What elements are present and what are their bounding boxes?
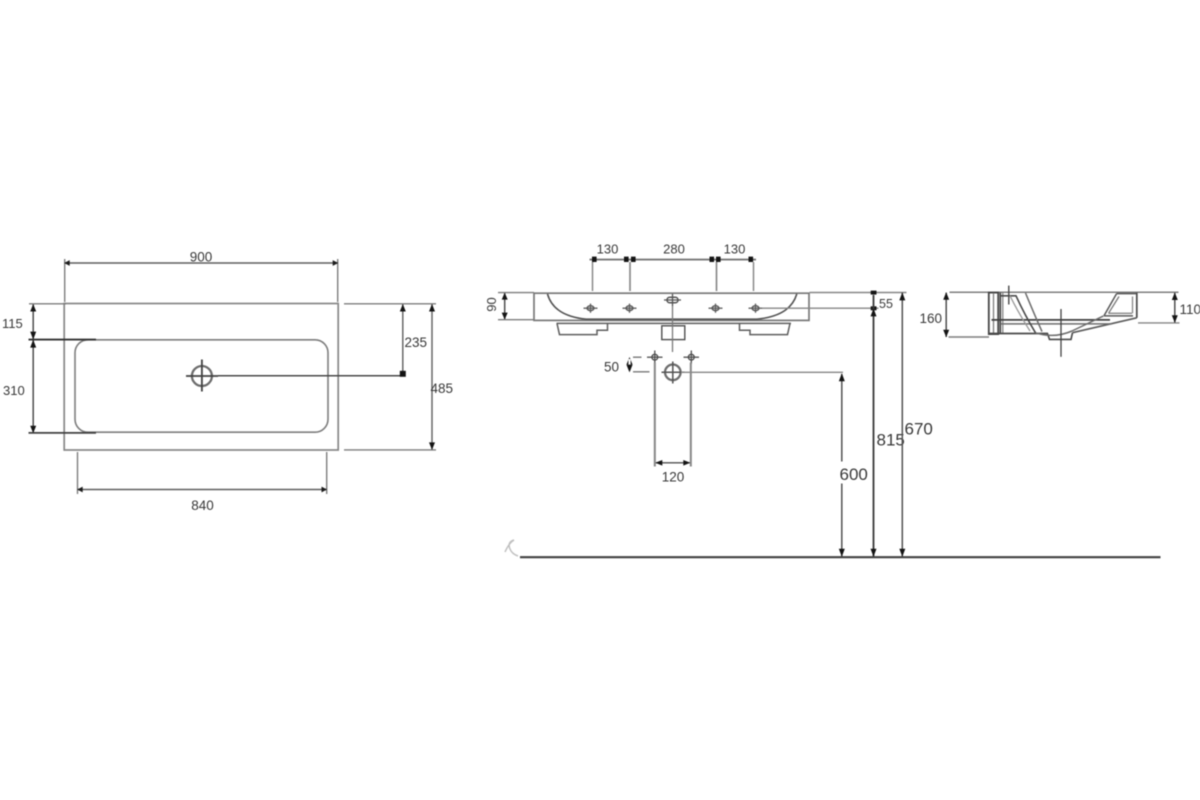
dim 815 top arrow [871,308,877,316]
body left edge [999,293,1001,334]
dim 115/310 middle double arrow [30,332,36,348]
dim 115 top arrow [30,304,36,312]
dim 55 tick top [871,291,877,295]
dim 110 top arrow [1172,293,1178,301]
overflow left diagonal [1104,294,1117,316]
dim 670 top arrow [899,292,905,300]
body right edge [1136,293,1138,318]
svg-text:815: 815 [877,431,905,450]
svg-text:50: 50 [604,360,619,375]
tap hole oval 3 [709,304,723,313]
duct vertical left [654,363,656,467]
rim bottom line across body [992,319,1111,321]
svg-text:670: 670 [905,420,933,439]
dim 110 bottom arrow [1172,315,1178,323]
overflow top edge [1117,293,1137,295]
drain leader line to 235 dimension [218,375,404,377]
drain symbol circle [192,366,212,386]
dim 600 bottom arrow [839,549,845,557]
dim 840 ext line left [77,452,79,494]
ext vertical hole2 [629,262,631,291]
dim 815 bottom arrow [871,549,877,557]
dim 485 bottom arrow [429,442,435,450]
dim 840 arrow right [322,487,328,493]
overflow inner right edge [1132,297,1134,314]
drain centreline [1060,309,1062,357]
body left edge double line [1002,293,1004,333]
svg-text:115: 115 [2,316,23,331]
dim 160 line [945,293,947,337]
tap hole oval 1 [584,304,598,313]
dim 310 bottom arrow [30,426,36,434]
tick 4 [749,257,754,262]
overflow inner bottom line [1109,312,1133,314]
ext vertical hole3 [716,262,718,291]
tick 2b [631,257,636,262]
svg-text:110: 110 [1180,302,1200,317]
ext vertical hole1 [592,262,594,291]
svg-text:90: 90 [484,297,499,311]
tick 3b [716,257,721,262]
duct vertical right [690,363,692,467]
ext line at inner-rect bottom (dark) [29,432,97,434]
left wall bracket [557,323,608,334]
svg-text:55: 55 [879,297,893,311]
inner shelf line [1001,323,1113,325]
dim 160 bottom ext line [949,336,990,338]
dim 900 arrow left [64,260,70,266]
centreline through faucet/drain [672,306,674,352]
ext vertical hole4 [753,262,755,291]
faucet centreline [1008,286,1010,305]
dim 90 ext bottom [498,319,534,321]
svg-text:235: 235 [405,335,428,350]
tap hole oval 2 [623,304,637,313]
svg-text:130: 130 [597,241,619,256]
dim 50 ext dash bottom [633,371,650,373]
ext line holes to 55 [762,307,879,309]
ext line top for 115 (outer rect top-left to dim line) [29,303,66,305]
dim 900 extension line left [64,259,66,302]
basin inner bowl rounded rectangle [75,340,328,432]
right wall bracket [740,323,791,334]
dim 900 extension line right [337,259,339,302]
basin outer rim rectangle [64,304,338,451]
dim 90 top arrow [502,293,508,300]
dim 840 line [78,489,327,491]
interior wall curve 2 [1026,293,1043,332]
ext line at inner-rect top (dark) [29,339,97,341]
dim 900 arrow right [333,260,339,266]
drain boss [1048,333,1073,340]
dim 235 bottom tick [400,371,406,377]
interior wall curve 3 [1010,296,1030,331]
dim 670 bottom arrow [899,549,905,557]
dim 55 tick bottom [871,306,877,310]
svg-text:120: 120 [662,470,685,485]
dim 110 bottom ext line [1138,322,1180,324]
tick 2a [624,257,629,262]
dim 90 line [504,293,506,319]
dim 840 arrow left [77,487,83,493]
tick 1 [592,257,597,262]
dim 600 top arrow [839,373,845,381]
dim 120 line [656,462,690,464]
floor line [520,556,1161,558]
svg-text:280: 280 [663,241,685,256]
drain box [662,326,685,340]
dim 130/280/130 line [590,259,757,261]
dim 670 line [901,293,903,557]
dim 120 arrow right [683,460,690,466]
dim 815 line [873,295,875,557]
ext line drain to 600 [681,371,843,373]
dim 485 line [431,305,433,450]
svg-text:600: 600 [840,465,868,484]
basin interior profile arc [548,294,797,319]
overflow inner diagonal [1109,297,1120,314]
basin front rectangle [534,293,809,320]
dim 90 ext top [498,292,534,294]
shelf line under basin [557,322,792,324]
tick 3a [710,257,715,262]
overflow bottom line [1104,315,1133,317]
centre faucet hole [664,294,681,306]
faucet deck and interior wall curve [1001,296,1036,333]
drain crosshair horizontal [186,375,218,377]
ext line basin top right [810,292,907,294]
siphon mount hole left [647,351,663,364]
drain crosshair vertical [201,360,203,392]
dim 110 line [1174,293,1176,323]
dim 90 bottom arrow [502,313,508,320]
dim 235 line [402,305,404,375]
svg-text:130: 130 [724,241,746,256]
wall bracket inner line [993,293,995,334]
svg-text:485: 485 [431,381,454,396]
drain outlet crosshair horizontal [662,371,685,373]
dim 115/310 vertical line [32,304,34,433]
dim 120 arrow left [655,460,662,466]
dim 50 ext dash top [633,356,642,358]
dim 485 top arrow [429,304,435,312]
drain outlet circle [665,365,681,381]
svg-text:160: 160 [920,311,943,326]
siphon mount hole right [684,351,700,364]
dim 160 bottom arrow [943,330,949,338]
svg-text:310: 310 [3,383,25,398]
dim 840 ext line right [326,452,328,494]
interior bowl bottom curve [1036,316,1104,336]
underside diagonal [1073,318,1137,333]
floor break squiggle [505,540,518,556]
ext line top right (outer rect top-right corner rightward) [344,303,436,305]
svg-text:840: 840 [191,498,214,513]
dim 50 double arrow [626,357,632,372]
ext line bottom right (outer rect bottom rightward) [344,449,436,451]
dim 600 line lower [841,484,843,557]
tap hole oval 4 [749,304,763,313]
wall bracket [989,293,998,335]
dim 900 line [65,262,338,264]
dim 600 line upper [841,374,843,462]
svg-text:900: 900 [190,250,213,265]
dim 160 top arrow [943,292,949,300]
dim 235 top arrow [400,304,406,312]
body bottom edge [989,333,1048,335]
top extension line across side view [950,291,1179,293]
drain outlet crosshair vertical [672,362,674,384]
